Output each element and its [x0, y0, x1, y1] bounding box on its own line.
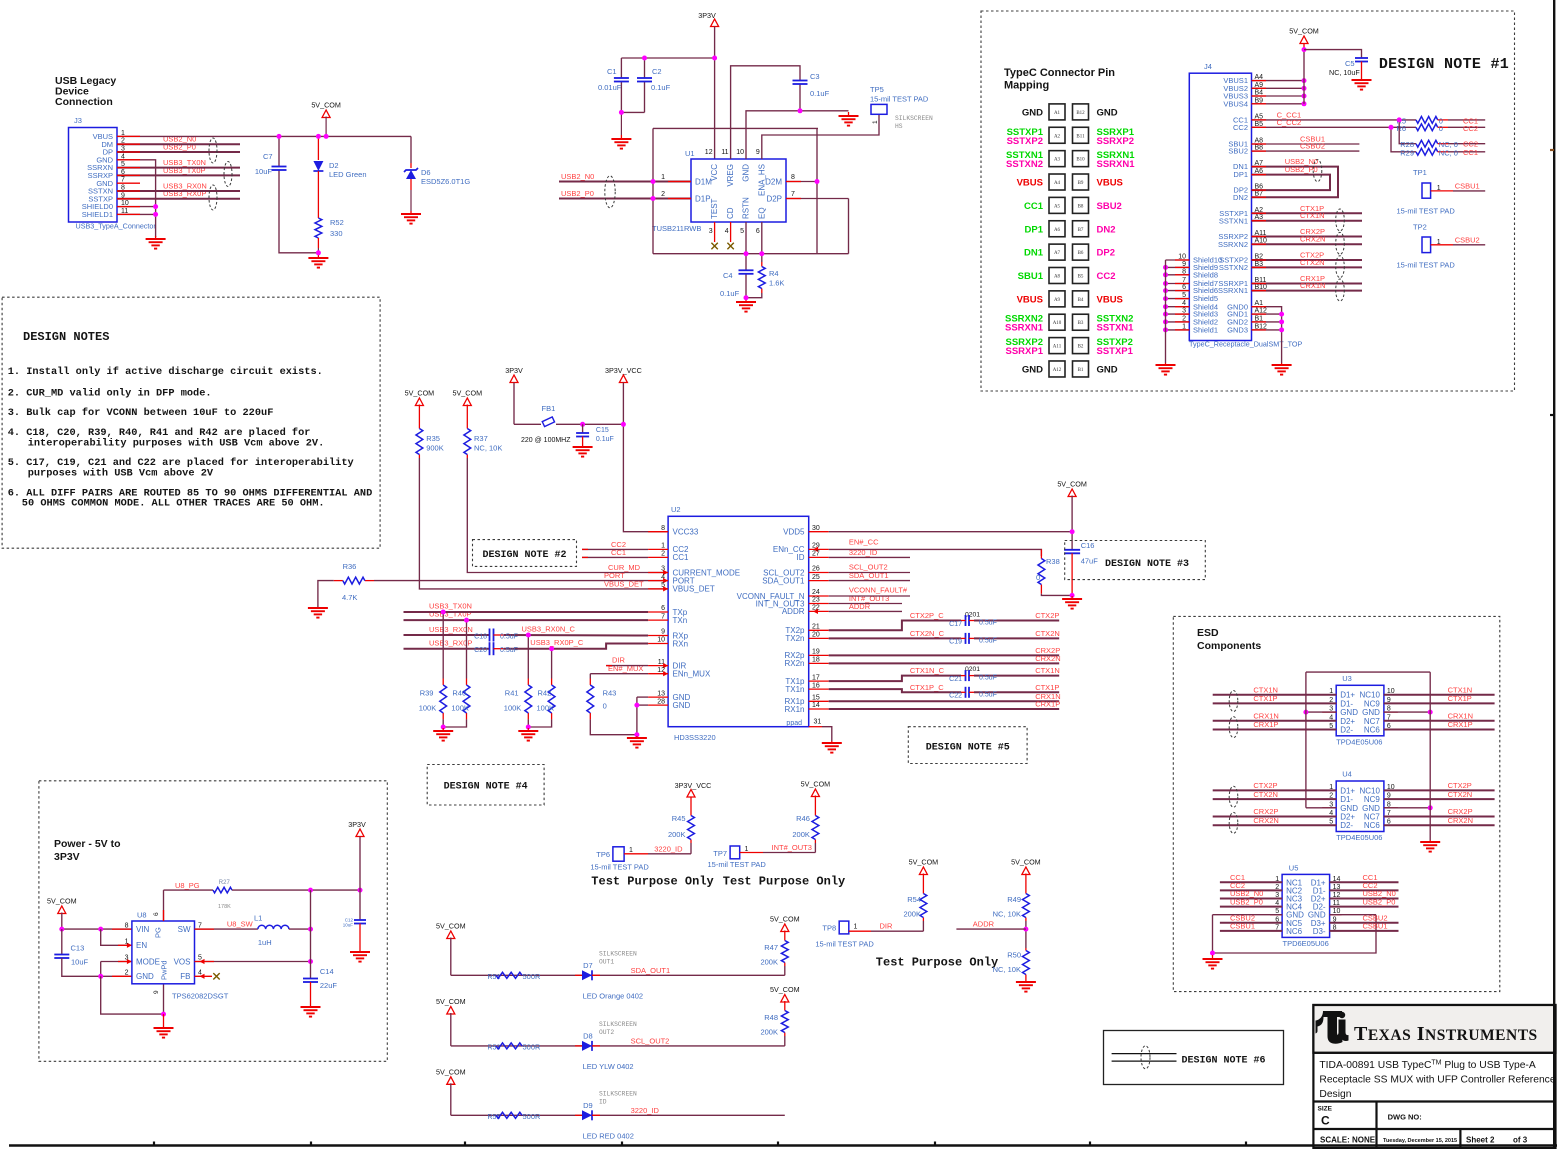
svg-text:D1M: D1M: [695, 178, 712, 187]
svg-text:3220_ID: 3220_ID: [631, 1106, 660, 1115]
svg-text:CSBU2: CSBU2: [1455, 235, 1480, 244]
svg-text:9: 9: [153, 990, 160, 994]
svg-text:DP1: DP1: [1025, 224, 1044, 235]
svg-text:TEXAS INSTRUMENTS: TEXAS INSTRUMENTS: [1354, 1023, 1538, 1045]
svg-text:DN1: DN1: [1024, 248, 1044, 259]
svg-text:A12: A12: [1053, 368, 1062, 373]
svg-text:CTX1P: CTX1P: [1035, 683, 1059, 692]
svg-text:7: 7: [791, 191, 795, 198]
svg-text:CTX1P: CTX1P: [1253, 694, 1277, 703]
svg-text:SCL_OUT2: SCL_OUT2: [631, 1037, 670, 1046]
svg-text:2: 2: [661, 191, 665, 198]
svg-text:18: 18: [812, 657, 820, 664]
svg-text:15: 15: [812, 695, 820, 702]
svg-text:0: 0: [1439, 124, 1443, 133]
svg-text:CRX1N: CRX1N: [1300, 281, 1325, 290]
svg-text:DN2: DN2: [1233, 193, 1248, 202]
svg-text:10uF: 10uF: [71, 958, 89, 967]
svg-text:C2: C2: [652, 67, 662, 76]
svg-text:5V_COM: 5V_COM: [770, 915, 800, 924]
svg-text:CC1: CC1: [673, 553, 690, 562]
svg-text:500R: 500R: [523, 1112, 542, 1121]
svg-text:C18: C18: [474, 634, 487, 641]
svg-text:CRX2P: CRX2P: [1253, 807, 1278, 816]
svg-text:C1: C1: [607, 67, 617, 76]
svg-text:TIDA-00891 USB TypeCTM Plug t: TIDA-00891 USB TypeCTM Plug to USB Type-…: [1319, 1060, 1535, 1072]
svg-text:13: 13: [657, 690, 665, 697]
svg-text:R48: R48: [764, 1013, 778, 1022]
svg-text:1: 1: [854, 924, 858, 931]
svg-text:VOS: VOS: [174, 957, 191, 966]
svg-text:CD: CD: [726, 207, 735, 219]
svg-text:500R: 500R: [523, 1043, 542, 1052]
svg-text:J4: J4: [1204, 62, 1212, 71]
svg-text:100K: 100K: [537, 704, 555, 713]
svg-text:GND: GND: [1097, 364, 1118, 375]
svg-text:ppad: ppad: [786, 720, 802, 727]
svg-text:ESD5Z6.0T1G: ESD5Z6.0T1G: [421, 177, 470, 186]
svg-text:CTX2N: CTX2N: [1300, 258, 1325, 267]
svg-text:R40: R40: [452, 689, 466, 698]
svg-text:3P3V_VCC: 3P3V_VCC: [675, 781, 712, 790]
svg-text:330: 330: [330, 229, 343, 238]
svg-text:U8: U8: [137, 911, 147, 920]
svg-text:CTX1N: CTX1N: [1035, 666, 1060, 675]
svg-text:Shield1: Shield1: [1193, 326, 1218, 335]
svg-text:12: 12: [705, 149, 713, 156]
svg-text:0.1uF: 0.1uF: [596, 436, 614, 443]
svg-text:RX2n: RX2n: [784, 659, 804, 668]
svg-text:R6: R6: [1396, 124, 1406, 133]
svg-text:GND: GND: [1022, 364, 1043, 375]
svg-text:Test Purpose Only: Test Purpose Only: [591, 875, 713, 889]
svg-text:U8_SW: U8_SW: [227, 920, 254, 929]
svg-text:D2+: D2+: [1340, 717, 1355, 726]
svg-text:5V_COM: 5V_COM: [405, 389, 435, 398]
svg-text:B6: B6: [1078, 251, 1084, 256]
svg-text:100K: 100K: [419, 704, 437, 713]
svg-text:11: 11: [721, 149, 728, 156]
svg-text:10uF: 10uF: [343, 923, 354, 928]
svg-text:NC7: NC7: [1364, 717, 1381, 726]
svg-text:LED RED 0402: LED RED 0402: [583, 1131, 634, 1140]
svg-text:8: 8: [125, 922, 129, 929]
svg-text:ESD: ESD: [1197, 627, 1219, 639]
svg-text:B10: B10: [1076, 158, 1085, 163]
svg-text:USB2_P0: USB2_P0: [561, 189, 594, 198]
svg-text:HS: HS: [895, 123, 903, 130]
svg-text:of 3: of 3: [1513, 1136, 1528, 1145]
svg-text:R46: R46: [796, 814, 810, 823]
svg-text:3: 3: [125, 955, 129, 962]
svg-text:28: 28: [657, 698, 665, 705]
svg-text:CSBU2: CSBU2: [1300, 142, 1325, 151]
svg-text:SSTXN1: SSTXN1: [1097, 323, 1135, 334]
svg-text:RXn: RXn: [673, 639, 689, 648]
svg-text:0.5uF: 0.5uF: [500, 634, 518, 641]
svg-text:CRX2N: CRX2N: [1448, 816, 1473, 825]
svg-text:A8: A8: [1054, 274, 1061, 279]
svg-text:TPS62082DSGT: TPS62082DSGT: [172, 992, 229, 1001]
svg-text:HD3SS3220: HD3SS3220: [674, 733, 716, 742]
svg-text:J3: J3: [74, 116, 82, 125]
svg-text:CTX1N: CTX1N: [1253, 685, 1278, 694]
svg-text:LED YLW 0402: LED YLW 0402: [583, 1062, 634, 1071]
svg-text:5: 5: [740, 228, 744, 235]
svg-text:6: 6: [153, 912, 160, 916]
svg-text:23: 23: [812, 597, 820, 604]
svg-text:CC1: CC1: [1463, 148, 1478, 157]
svg-text:A10: A10: [1053, 321, 1062, 326]
svg-text:16: 16: [812, 682, 820, 689]
svg-text:15-mil TEST PAD: 15-mil TEST PAD: [1397, 260, 1456, 269]
svg-text:R36: R36: [343, 562, 357, 571]
svg-text:CRX2N: CRX2N: [1300, 235, 1325, 244]
svg-text:NC, 0: NC, 0: [1439, 148, 1458, 157]
svg-text:TP1: TP1: [1413, 168, 1427, 177]
svg-text:SCALE: NONE: SCALE: NONE: [1320, 1136, 1376, 1145]
svg-text:SSRXP1: SSRXP1: [1006, 346, 1044, 357]
svg-text:R4: R4: [769, 269, 779, 278]
svg-text:5V_COM: 5V_COM: [436, 997, 466, 1006]
svg-text:C5: C5: [1345, 59, 1355, 68]
svg-text:VBUS: VBUS: [1017, 178, 1043, 189]
svg-text:DESIGN NOTE #6: DESIGN NOTE #6: [1182, 1056, 1266, 1067]
svg-text:5V_COM: 5V_COM: [311, 101, 341, 110]
svg-text:USB2_N0: USB2_N0: [561, 172, 594, 181]
svg-text:SSTXN2: SSTXN2: [1006, 159, 1043, 170]
svg-text:A11: A11: [1053, 345, 1062, 350]
svg-text:DESIGN NOTE #2: DESIGN NOTE #2: [482, 550, 566, 561]
svg-text:GND: GND: [1022, 107, 1043, 118]
svg-text:Receptacle SS MUX with UFP Con: Receptacle SS MUX with UFP Controller Re…: [1319, 1075, 1555, 1086]
svg-text:R54: R54: [907, 895, 921, 904]
svg-text:NC6: NC6: [1286, 927, 1303, 936]
svg-text:15-mil TEST PAD: 15-mil TEST PAD: [590, 863, 649, 872]
svg-text:CRX2N: CRX2N: [1035, 654, 1060, 663]
svg-text:USB3_RX0P_C: USB3_RX0P_C: [530, 638, 584, 647]
svg-text:3220_ID: 3220_ID: [654, 844, 683, 853]
svg-text:DIR: DIR: [880, 922, 894, 931]
svg-text:TPD4E05U06: TPD4E05U06: [1336, 833, 1382, 842]
svg-text:CC1: CC1: [1024, 201, 1044, 212]
svg-text:SILKSCREEN: SILKSCREEN: [895, 115, 933, 122]
svg-text:OUT1: OUT1: [599, 958, 614, 965]
svg-text:CTX1P: CTX1P: [1448, 694, 1472, 703]
svg-text:D1P: D1P: [695, 195, 711, 204]
svg-text:C19: C19: [949, 639, 962, 646]
svg-text:A2: A2: [1054, 134, 1061, 139]
svg-text:EN#_CC: EN#_CC: [849, 537, 879, 546]
svg-text:5V_COM: 5V_COM: [909, 858, 939, 867]
svg-text:R43: R43: [603, 689, 617, 698]
svg-text:9: 9: [756, 149, 760, 156]
svg-text:2: 2: [661, 551, 665, 558]
svg-text:CSBU1: CSBU1: [1230, 922, 1255, 931]
svg-text:SSTXN2: SSTXN2: [1219, 263, 1248, 272]
svg-text:5V_COM: 5V_COM: [47, 897, 77, 906]
svg-text:Connection: Connection: [55, 96, 113, 108]
svg-text:R41: R41: [505, 689, 519, 698]
svg-text:SSRXN1: SSRXN1: [1097, 159, 1136, 170]
svg-text:DWG NO:: DWG NO:: [1388, 1113, 1422, 1122]
svg-text:DP2: DP2: [1097, 248, 1115, 259]
svg-text:500R: 500R: [523, 972, 542, 981]
svg-text:5V_COM: 5V_COM: [1011, 858, 1041, 867]
svg-text:VIN: VIN: [136, 925, 150, 934]
svg-text:NC9: NC9: [1364, 699, 1381, 708]
svg-text:TP8: TP8: [822, 924, 836, 933]
svg-text:31: 31: [814, 719, 822, 726]
svg-text:CTX1N: CTX1N: [1448, 685, 1473, 694]
svg-text:SIZE: SIZE: [1318, 1106, 1333, 1113]
svg-text:VBUS: VBUS: [1017, 294, 1043, 305]
svg-text:B1: B1: [1078, 368, 1084, 373]
svg-text:CTX2N: CTX2N: [1448, 790, 1473, 799]
svg-text:NC10: NC10: [1359, 691, 1380, 700]
svg-text:SSTXN1: SSTXN1: [1219, 216, 1248, 225]
svg-text:LED Green: LED Green: [329, 170, 367, 179]
svg-text:ADDR: ADDR: [973, 920, 995, 929]
svg-text:TypeC Connector Pin: TypeC Connector Pin: [1004, 67, 1115, 79]
svg-text:1uH: 1uH: [258, 938, 272, 947]
svg-text:GND: GND: [1362, 804, 1380, 813]
svg-text:24: 24: [812, 589, 820, 596]
svg-text:ID: ID: [797, 553, 805, 562]
svg-text:5V_COM: 5V_COM: [453, 389, 483, 398]
svg-text:GND: GND: [136, 972, 154, 981]
svg-text:1: 1: [125, 939, 129, 946]
svg-text:D2M: D2M: [765, 178, 782, 187]
svg-text:RX1n: RX1n: [784, 705, 804, 714]
svg-text:USB2_P0: USB2_P0: [1363, 897, 1396, 906]
svg-text:B4: B4: [1078, 298, 1084, 303]
svg-text:17: 17: [812, 674, 820, 681]
svg-text:B3: B3: [1078, 321, 1084, 326]
svg-text:7: 7: [661, 613, 665, 620]
svg-text:U5: U5: [1289, 864, 1299, 873]
svg-text:B11: B11: [1076, 134, 1085, 139]
svg-text:CSBU1: CSBU1: [1363, 922, 1388, 931]
svg-text:CTX2P: CTX2P: [1448, 781, 1472, 790]
svg-text:RSTN: RSTN: [742, 197, 751, 219]
svg-text:CSBU1: CSBU1: [1455, 181, 1480, 190]
svg-text:0201: 0201: [965, 612, 980, 619]
svg-text:C14: C14: [320, 967, 334, 976]
svg-text:interoperability purposes with: interoperability purposes with USB Vcm a…: [28, 438, 325, 450]
svg-text:0.5uF: 0.5uF: [979, 637, 997, 644]
svg-text:R52: R52: [330, 218, 344, 227]
svg-text:D2P: D2P: [766, 195, 782, 204]
svg-text:4.7K: 4.7K: [342, 593, 357, 602]
svg-text:USB3_TypeA_Connector: USB3_TypeA_Connector: [76, 222, 157, 231]
svg-text:L1: L1: [254, 914, 262, 923]
svg-text:0.1uF: 0.1uF: [651, 83, 671, 92]
svg-text:CRX1N: CRX1N: [1253, 712, 1278, 721]
svg-text:14: 14: [812, 702, 820, 709]
svg-text:C7: C7: [263, 152, 273, 161]
svg-text:NC, 10uF: NC, 10uF: [1329, 68, 1360, 77]
svg-text:TP6: TP6: [596, 850, 610, 859]
svg-text:D1+: D1+: [1340, 786, 1355, 795]
svg-text:1. Install only if active disc: 1. Install only if active discharge circ…: [8, 366, 323, 378]
svg-text:NC6: NC6: [1364, 726, 1381, 735]
svg-text:5V_COM: 5V_COM: [801, 780, 831, 789]
svg-text:Shield8: Shield8: [1193, 270, 1218, 279]
svg-text:A4: A4: [1054, 181, 1061, 186]
svg-text:8: 8: [661, 525, 665, 532]
svg-text:10: 10: [736, 149, 744, 156]
svg-text:C16: C16: [1081, 541, 1095, 550]
svg-text:D2: D2: [329, 161, 339, 170]
svg-text:10: 10: [657, 637, 665, 644]
svg-text:Power - 5V to: Power - 5V to: [54, 838, 121, 850]
svg-text:U1: U1: [685, 149, 695, 158]
svg-text:USB3_TX0P: USB3_TX0P: [429, 610, 472, 619]
svg-text:NC, 10K: NC, 10K: [993, 910, 1021, 919]
svg-text:R35: R35: [426, 434, 440, 443]
svg-text:NC6: NC6: [1364, 821, 1381, 830]
svg-text:U8_PG: U8_PG: [175, 881, 200, 890]
svg-text:GND: GND: [1362, 708, 1380, 717]
svg-text:B7: B7: [1078, 228, 1084, 233]
svg-text:D2+: D2+: [1340, 813, 1355, 822]
svg-text:0.01uF: 0.01uF: [598, 83, 622, 92]
svg-text:C15: C15: [596, 427, 609, 434]
svg-text:FB1: FB1: [542, 404, 556, 413]
svg-text:CC2: CC2: [1233, 123, 1248, 132]
svg-text:CRX1P: CRX1P: [1253, 720, 1278, 729]
svg-text:TP2: TP2: [1413, 222, 1427, 231]
svg-text:VBUS: VBUS: [1097, 178, 1123, 189]
svg-text:INT#_OUT3: INT#_OUT3: [772, 843, 812, 852]
svg-text:CRX1N: CRX1N: [1448, 712, 1473, 721]
svg-text:100K: 100K: [451, 704, 469, 713]
svg-text:D7: D7: [583, 961, 593, 970]
svg-text:0: 0: [1036, 573, 1040, 582]
svg-text:PwPd: PwPd: [160, 960, 169, 980]
svg-text:EN: EN: [136, 941, 147, 950]
svg-text:3220_ID: 3220_ID: [849, 548, 878, 557]
svg-text:200K: 200K: [792, 830, 810, 839]
svg-text:30: 30: [812, 525, 820, 532]
svg-text:R38: R38: [1046, 557, 1060, 566]
svg-text:R27: R27: [219, 880, 231, 886]
svg-text:178K: 178K: [218, 904, 231, 910]
svg-text:ID: ID: [599, 1098, 607, 1105]
svg-text:0.5uF: 0.5uF: [979, 691, 997, 698]
svg-text:15-mil TEST PAD: 15-mil TEST PAD: [1397, 206, 1456, 215]
svg-text:4: 4: [725, 228, 729, 235]
svg-text:Components: Components: [1197, 640, 1261, 652]
svg-text:TXn: TXn: [673, 616, 688, 625]
svg-text:15-mil TEST PAD: 15-mil TEST PAD: [870, 95, 929, 104]
svg-text:CTX2N: CTX2N: [1035, 629, 1060, 638]
svg-text:USB2_P0: USB2_P0: [1285, 165, 1318, 174]
svg-text:USB3_RX0N_C: USB3_RX0N_C: [522, 625, 576, 634]
svg-text:B12: B12: [1076, 111, 1085, 116]
svg-text:GND: GND: [1097, 107, 1118, 118]
svg-text:CRX1P: CRX1P: [1035, 700, 1060, 709]
svg-text:TPD4E05U06: TPD4E05U06: [1336, 737, 1382, 746]
svg-text:19: 19: [812, 649, 820, 656]
svg-text:GND: GND: [742, 164, 751, 182]
svg-text:3P3V: 3P3V: [54, 851, 80, 863]
svg-text:7: 7: [198, 922, 202, 929]
svg-text:3P3V: 3P3V: [348, 820, 366, 829]
svg-text:D3-: D3-: [1313, 927, 1326, 936]
svg-text:SSTXP2: SSTXP2: [1007, 136, 1043, 147]
svg-text:5V_COM: 5V_COM: [1057, 480, 1087, 489]
svg-text:VBUS_DET: VBUS_DET: [673, 585, 715, 594]
svg-text:900K: 900K: [426, 444, 444, 453]
svg-text:FB: FB: [180, 972, 190, 981]
svg-text:ADDR: ADDR: [782, 607, 805, 616]
svg-text:DN2: DN2: [1097, 224, 1116, 235]
svg-text:SBU1: SBU1: [1018, 271, 1044, 282]
svg-text:Mapping: Mapping: [1004, 80, 1049, 92]
svg-text:3P3V: 3P3V: [698, 11, 716, 20]
svg-text:GND: GND: [673, 701, 691, 710]
svg-text:MODE: MODE: [136, 957, 160, 966]
svg-text:VBUS4: VBUS4: [1223, 99, 1248, 108]
svg-text:25: 25: [812, 574, 820, 581]
svg-text:R50: R50: [1007, 951, 1021, 960]
svg-text:VDD5: VDD5: [783, 528, 805, 537]
svg-text:B8: B8: [1078, 204, 1084, 209]
svg-text:GND: GND: [1340, 708, 1358, 717]
svg-text:0.5uF: 0.5uF: [979, 620, 997, 627]
svg-text:CTX1N: CTX1N: [1300, 211, 1325, 220]
svg-text:6: 6: [661, 605, 665, 612]
svg-text:DESIGN NOTE #1: DESIGN NOTE #1: [1379, 56, 1509, 73]
svg-text:R47: R47: [764, 943, 778, 952]
svg-text:A6: A6: [1054, 228, 1061, 233]
svg-text:200K: 200K: [903, 910, 921, 919]
svg-text:OUT2: OUT2: [599, 1029, 614, 1036]
svg-text:TX2n: TX2n: [785, 634, 804, 643]
svg-text:NC, 10K: NC, 10K: [474, 444, 502, 453]
svg-text:U4: U4: [1342, 770, 1352, 779]
svg-text:TEST: TEST: [710, 198, 719, 219]
svg-text:100K: 100K: [504, 704, 522, 713]
svg-text:SILKSCREEN: SILKSCREEN: [599, 1090, 637, 1097]
svg-text:NC9: NC9: [1364, 795, 1381, 804]
svg-text:CTX2P: CTX2P: [1253, 781, 1277, 790]
svg-text:SSRXP2: SSRXP2: [1097, 136, 1135, 147]
svg-text:R45: R45: [672, 814, 686, 823]
svg-text:C20: C20: [474, 647, 487, 654]
svg-text:TX1n: TX1n: [785, 685, 804, 694]
svg-text:5V_COM: 5V_COM: [770, 985, 800, 994]
svg-text:200K: 200K: [760, 1028, 778, 1037]
svg-text:220 @ 100MHZ: 220 @ 100MHZ: [521, 437, 571, 444]
svg-text:A1: A1: [1054, 111, 1061, 116]
svg-text:EQ: EQ: [757, 207, 766, 219]
svg-text:CTX1P_C: CTX1P_C: [910, 683, 944, 692]
svg-text:1: 1: [872, 120, 879, 124]
svg-text:TUSB211RWB: TUSB211RWB: [652, 224, 701, 233]
svg-text:C4: C4: [723, 271, 733, 280]
svg-text:5V_COM: 5V_COM: [436, 922, 466, 931]
svg-text:26: 26: [812, 566, 820, 573]
svg-text:USB2_P0: USB2_P0: [1230, 897, 1263, 906]
svg-text:1: 1: [629, 847, 633, 854]
svg-text:2. CUR_MD valid only in DFP mo: 2. CUR_MD valid only in DFP mode.: [8, 388, 212, 400]
svg-text:C13: C13: [71, 944, 85, 953]
svg-text:SILKSCREEN: SILKSCREEN: [599, 1021, 637, 1028]
svg-text:GND3: GND3: [1227, 326, 1248, 335]
